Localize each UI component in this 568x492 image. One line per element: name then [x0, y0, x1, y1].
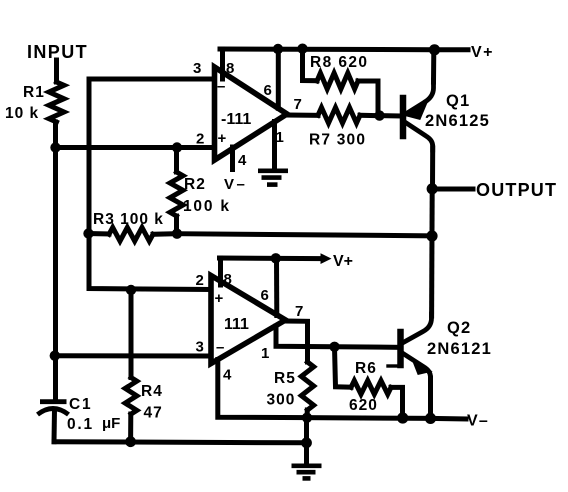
svg-text:-111: -111: [221, 111, 251, 128]
svg-text:2N6125: 2N6125: [425, 112, 490, 130]
ground symbol below U1: [258, 171, 288, 185]
svg-text:1: 1: [261, 345, 269, 362]
arrow to V+: [321, 253, 332, 264]
pin 6 wire U2: [274, 258, 279, 315]
svg-text:R6: R6: [355, 360, 377, 377]
pin 8 wire U2: [218, 258, 223, 285]
svg-text:111: 111: [224, 316, 249, 333]
transistor Q2 2N6121: [401, 314, 493, 418]
node junction input/R1 bottom: [50, 142, 60, 152]
wire to bottom ground: [304, 418, 309, 463]
svg-text:3: 3: [196, 339, 204, 356]
pin 4 stub U1, V-: [230, 147, 235, 170]
op-amp U1 (111) triangle: [215, 67, 288, 160]
wire U2 V+ rail: [220, 256, 323, 262]
op-amp U2 (111) triangle: [211, 276, 286, 364]
svg-text:8: 8: [224, 271, 232, 288]
node ground junction bottom: [301, 437, 312, 448]
pin 7 output wire U2: [286, 321, 308, 346]
svg-text:V–: V–: [467, 413, 489, 430]
wire U1 output pin 7: [287, 113, 318, 118]
svg-text:3: 3: [193, 60, 201, 77]
wire to pin 2 of U1: [56, 145, 213, 150]
node R5/rail junction: [302, 413, 312, 423]
svg-text:V–: V–: [224, 176, 247, 193]
wire feedback to pin 3 of U1: [89, 79, 212, 290]
resistor R5: [305, 346, 310, 362]
node R4 bottom junction: [125, 436, 136, 447]
node R6 tap on base wire: [329, 342, 339, 352]
svg-text:2: 2: [196, 272, 204, 289]
pin 4 wire U2: [218, 360, 307, 418]
svg-text:V+: V+: [471, 44, 494, 61]
svg-text:Q2: Q2: [447, 319, 471, 337]
ground symbol bottom: [292, 466, 322, 479]
node R2 bottom junction: [172, 229, 182, 239]
node OUTPUT junction: [427, 183, 438, 194]
svg-text:2N6121: 2N6121: [427, 340, 492, 358]
svg-text:6: 6: [264, 82, 272, 99]
svg-text:6: 6: [261, 287, 269, 304]
resistor R6: [335, 347, 352, 387]
svg-text:1: 1: [276, 129, 284, 146]
svg-text:4: 4: [223, 367, 232, 384]
wire to V- label: [431, 416, 467, 422]
resistor R8: [303, 49, 318, 81]
svg-text:2: 2: [196, 131, 204, 148]
node R6/rail junction: [397, 412, 408, 423]
node pin6 tap U2: [271, 253, 281, 263]
svg-text:10 k: 10 k: [5, 105, 39, 122]
node R8 tap: [297, 44, 307, 54]
node pin3 tap on left rail: [50, 351, 60, 361]
wire output vertical rail: [429, 189, 435, 316]
svg-text:0.1: 0.1: [67, 416, 94, 433]
node R2 top tap: [172, 142, 182, 152]
svg-text:C1: C1: [69, 396, 92, 413]
svg-text:OUTPUT: OUTPUT: [476, 180, 557, 200]
pin 3 wire U2: [55, 353, 212, 358]
node R3 line / output rail: [426, 230, 437, 241]
transistor Q1 2N6125: [403, 51, 490, 189]
pin 8 wire U1: [220, 49, 225, 79]
svg-text:47: 47: [144, 405, 163, 422]
node Q2 emitter/rail junction: [425, 413, 436, 424]
wire bottom rail to ground: [54, 442, 307, 443]
svg-text:V+: V+: [333, 253, 353, 270]
node R8/R7 junction: [374, 110, 384, 120]
wire OUTPUT: [432, 187, 473, 192]
resistor R1: [49, 82, 64, 122]
svg-text:R2: R2: [184, 176, 206, 193]
svg-text:620: 620: [349, 397, 378, 414]
svg-text:R4: R4: [141, 383, 163, 400]
node pin6 tap: [273, 44, 283, 54]
svg-text:100 k: 100 k: [183, 198, 231, 215]
svg-text:Q1: Q1: [446, 92, 470, 110]
resistor R4: [129, 290, 134, 378]
resistor R2: [174, 148, 179, 173]
svg-text:+: +: [215, 290, 224, 307]
wire R3 to output rail: [177, 234, 432, 236]
svg-text:R3 100 k: R3 100 k: [93, 211, 164, 228]
svg-text:μF: μF: [102, 415, 120, 432]
wire input stub: [54, 60, 59, 82]
node R4 tap junction: [126, 285, 136, 295]
resistor R7: [318, 108, 360, 124]
svg-text:R1: R1: [23, 84, 45, 101]
svg-text:8: 8: [226, 60, 234, 77]
svg-text:R7 300: R7 300: [309, 132, 366, 149]
svg-text:+: +: [218, 130, 227, 147]
svg-text:R5: R5: [274, 370, 296, 387]
capacitor C1: [38, 402, 69, 415]
svg-text:–: –: [216, 339, 224, 356]
svg-text:300: 300: [267, 392, 296, 409]
svg-text:R8 620: R8 620: [310, 54, 368, 71]
svg-text:7: 7: [294, 96, 302, 113]
wire V+ top rail: [220, 47, 468, 53]
node R3 tap on feedback wire: [83, 228, 93, 238]
wire left vertical rail: [53, 122, 58, 400]
pin 6 wire U1: [276, 49, 281, 108]
node V+ / Q1 emitter: [429, 44, 440, 55]
svg-text:7: 7: [295, 303, 303, 320]
pin 1 wire U1 to ground: [272, 122, 277, 169]
wire V- rail: [307, 415, 431, 421]
pin 1 wire U2: [276, 326, 399, 347]
svg-text:4: 4: [238, 152, 247, 169]
resistor R3: [89, 231, 110, 237]
